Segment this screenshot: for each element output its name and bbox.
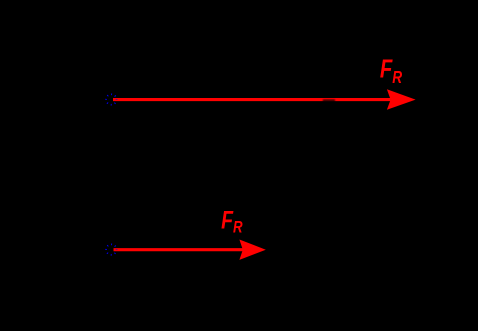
force arrow F_R (top diagram) : shaft: [113, 98, 391, 101]
blue dotted point marker (bottom diagram): [106, 244, 116, 254]
force arrow F_R (bottom diagram) : shaft: [114, 248, 244, 251]
force arrow F_R (top diagram) : arrowhead: [387, 89, 416, 110]
dark overlap notch on top arrow shaft: [323, 99, 335, 101]
force arrow F_R (bottom diagram) : arrowhead: [239, 240, 265, 260]
blue dotted point marker (top diagram): [106, 94, 116, 104]
